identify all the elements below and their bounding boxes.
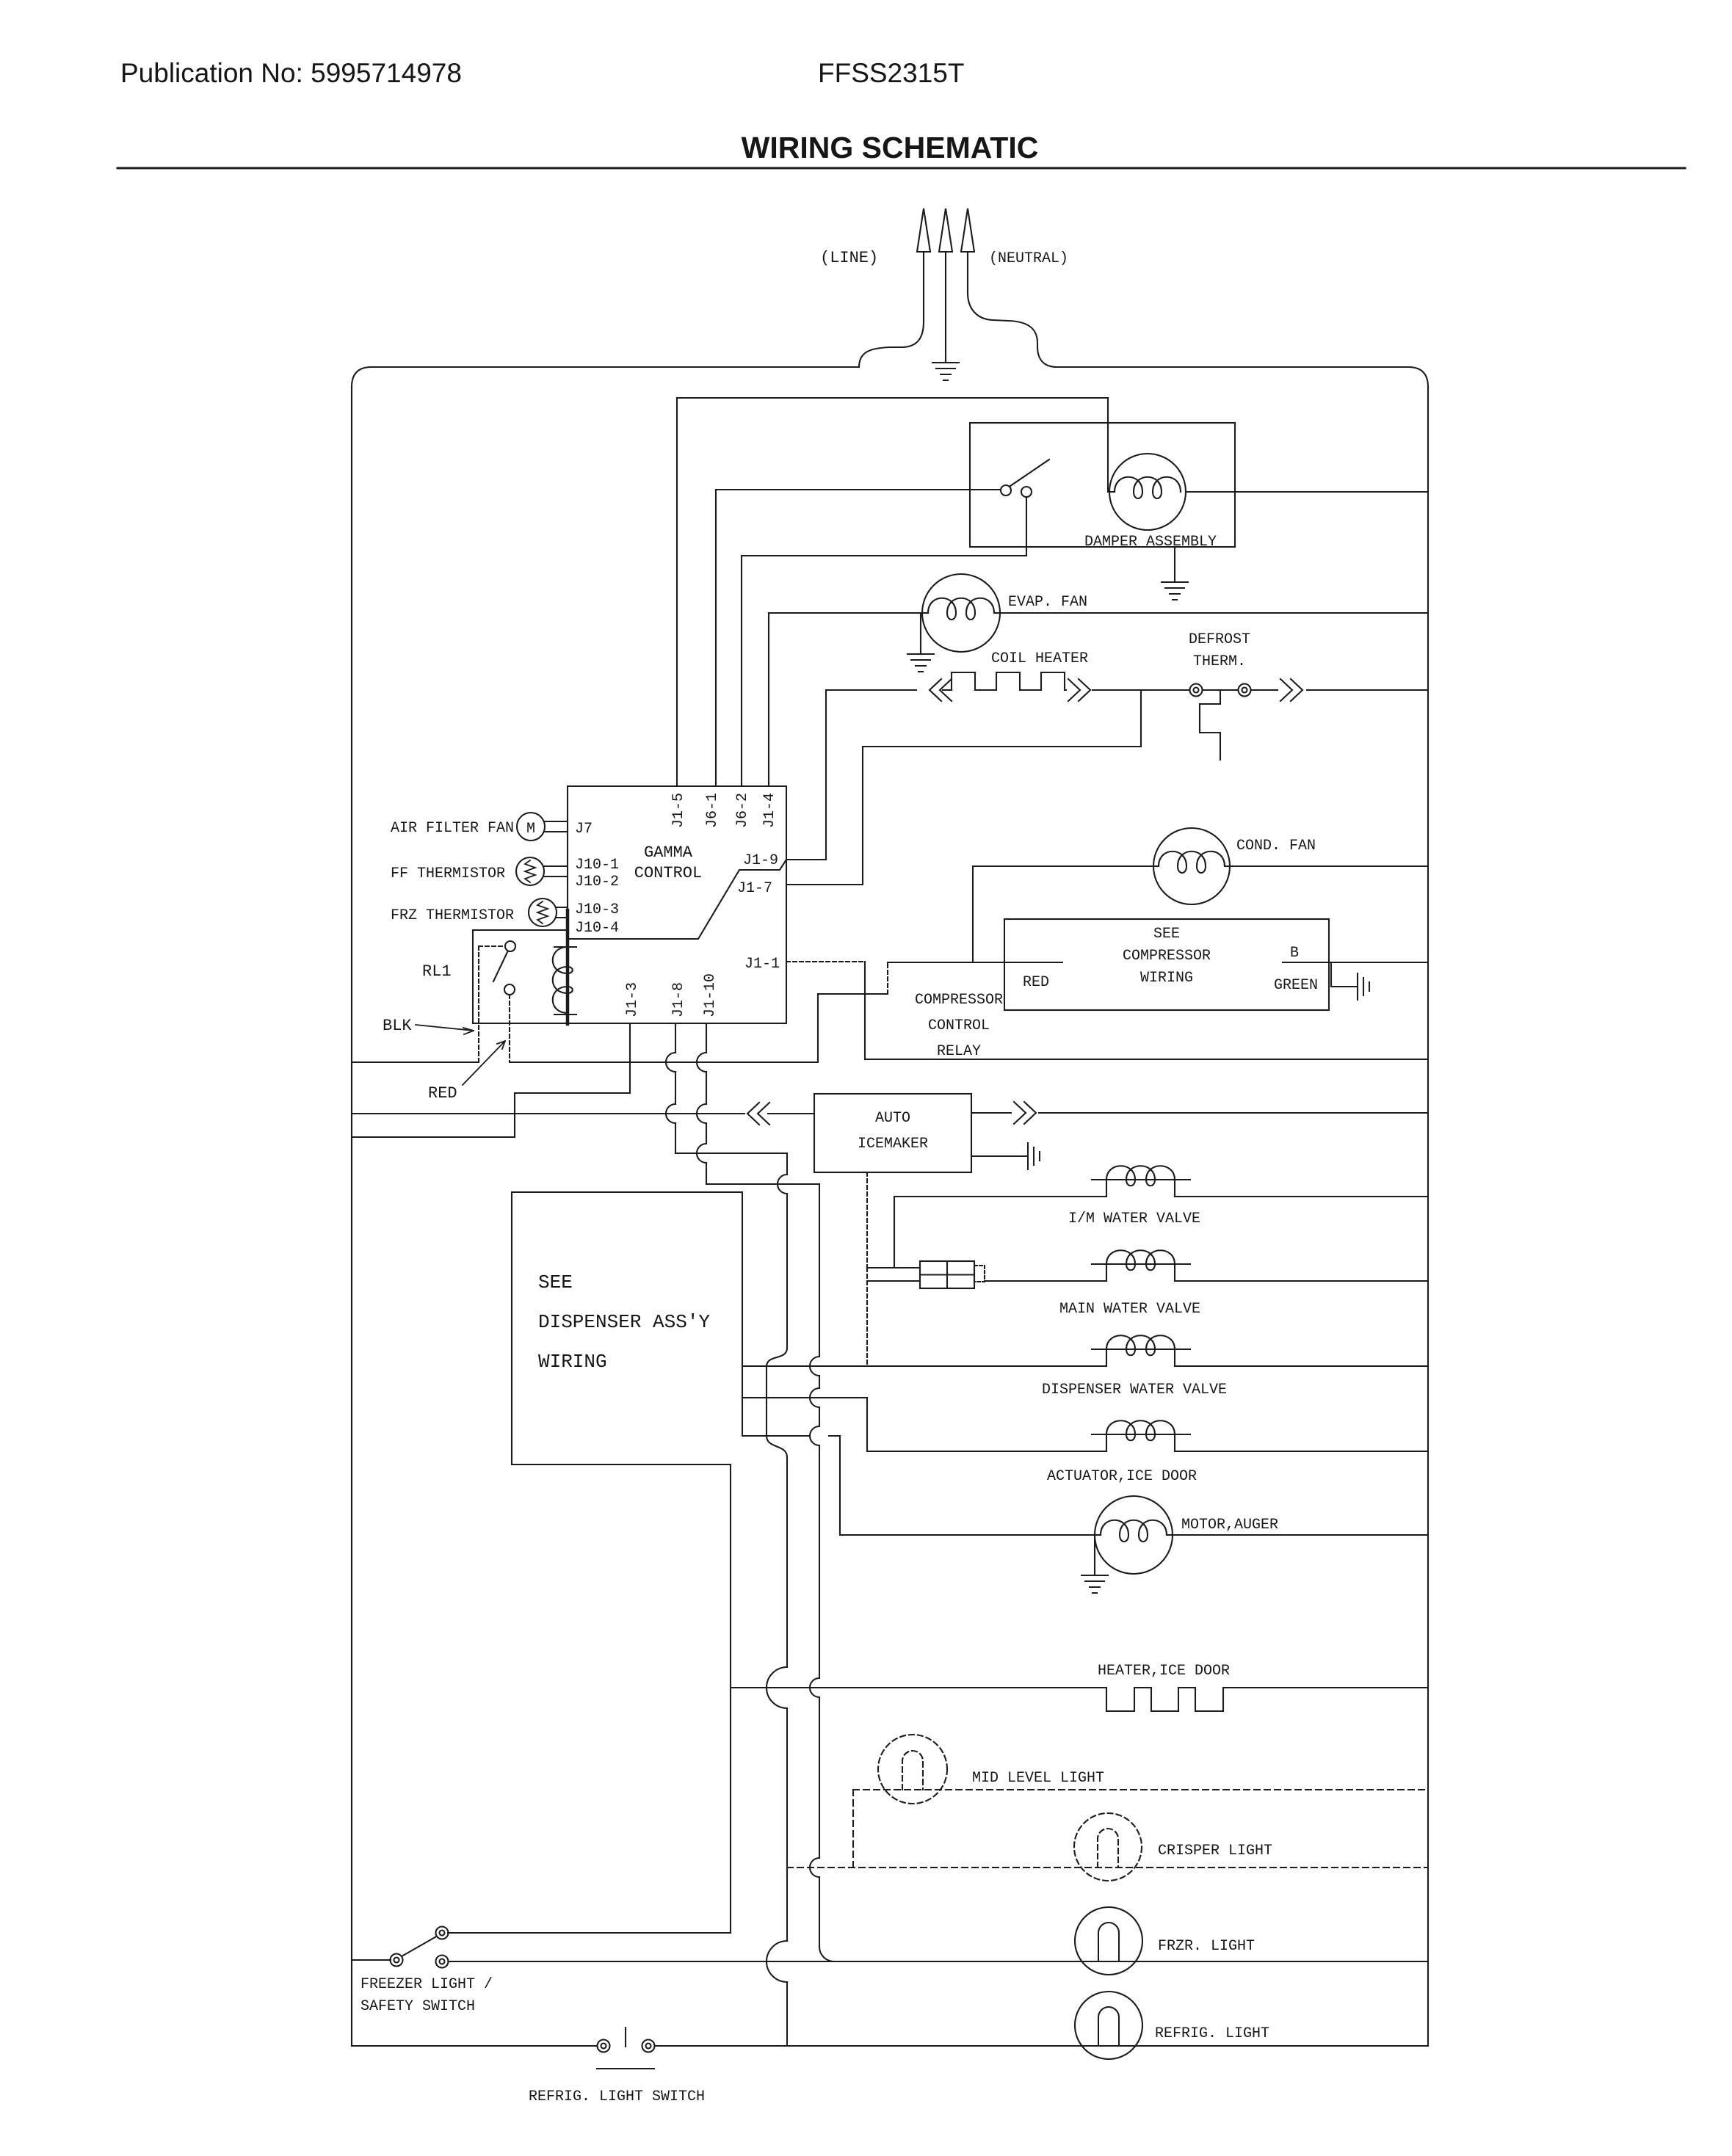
wire FF thermistor leads xyxy=(544,866,568,876)
svg-text:WIRING: WIRING xyxy=(1140,970,1193,987)
motor auger coil winding xyxy=(1101,1520,1167,1542)
wire J1-8 lane x=1044 xyxy=(766,1367,767,1436)
freezer light bulb DS3 xyxy=(1075,1907,1142,1975)
svg-text:B: B xyxy=(1290,945,1299,962)
wire J1-1 return to neutral rail xyxy=(865,962,1428,1059)
wire motor auger feed from dispenser box xyxy=(742,1436,1101,1535)
relay RL1 coil winding xyxy=(553,910,576,1024)
svg-text:COIL HEATER: COIL HEATER xyxy=(991,650,1088,667)
svg-text:J1-7: J1-7 xyxy=(737,880,772,897)
hop J1-10 over icemaker feed xyxy=(697,1104,706,1123)
wire icemaker ground lead xyxy=(971,1155,1026,1157)
svg-text:FRZR. LIGHT: FRZR. LIGHT xyxy=(1158,1938,1255,1955)
svg-text:DISPENSER WATER VALVE: DISPENSER WATER VALVE xyxy=(1042,1382,1227,1398)
svg-text:(NEUTRAL): (NEUTRAL) xyxy=(989,250,1068,267)
wire J1-4 to evap fan xyxy=(769,612,928,614)
earth ground for damper xyxy=(1162,582,1188,600)
svg-text:J1-8: J1-8 xyxy=(670,982,687,1017)
svg-text:REFRIG. LIGHT: REFRIG. LIGHT xyxy=(1155,2025,1269,2042)
svg-text:COMPRESSOR: COMPRESSOR xyxy=(915,992,1003,1009)
crisper light bulb DS2 xyxy=(1074,1813,1142,1881)
wire RED relay output drop xyxy=(509,995,510,1062)
svg-text:RED: RED xyxy=(1023,974,1049,991)
air filter fan motor B1 xyxy=(517,813,545,841)
main water valve solenoid L2 xyxy=(1092,1250,1190,1281)
hop J1-8 over icemaker feed xyxy=(666,1104,675,1123)
connector chevron on icemaker output xyxy=(1014,1102,1036,1124)
svg-text:J1-4: J1-4 xyxy=(761,793,778,828)
svg-text:BLK: BLK xyxy=(383,1017,412,1035)
svg-text:EVAP. FAN: EVAP. FAN xyxy=(1008,594,1087,611)
cond fan coil winding xyxy=(1159,852,1225,873)
wire J1-9 defrost heater feed xyxy=(786,690,916,860)
damper assembly box xyxy=(970,423,1235,547)
svg-text:WIRING SCHEMATIC: WIRING SCHEMATIC xyxy=(742,131,1039,164)
freezer safety switch wire from hot rail xyxy=(352,1959,391,1961)
svg-text:J1-9: J1-9 xyxy=(743,852,778,869)
wire J6-1 to damper switch xyxy=(716,489,1001,490)
water valve body block xyxy=(920,1261,974,1288)
wire icemaker output to neutral rail xyxy=(971,1112,1428,1114)
wire valve common drop xyxy=(866,1268,868,1366)
wire J1-10 run to the right xyxy=(706,1183,819,1185)
wire J1-5 vertical xyxy=(676,398,678,786)
svg-text:Publication No: 5995714978: Publication No: 5995714978 xyxy=(120,58,462,88)
wire bottom rail with refrig light xyxy=(352,2045,1428,2047)
wire J6-2 vertical xyxy=(741,556,742,786)
hop J1-10 over actuator feed wire xyxy=(810,1388,819,1407)
svg-text:RELAY: RELAY xyxy=(937,1043,981,1060)
connector chevron right on heater line xyxy=(1068,679,1090,701)
wire I/M valve riser xyxy=(894,1197,895,1268)
gamma control board outline U1 xyxy=(473,786,786,1023)
refrig light switch contact left xyxy=(598,2040,610,2052)
refrig light bulb DS4 xyxy=(1075,1992,1142,2059)
outer border top edge left segment (LINE rail) xyxy=(352,367,859,387)
FRZ thermistor RT2 xyxy=(529,899,557,926)
relay RL1 common contact xyxy=(505,941,515,951)
earth ground for motor auger xyxy=(1081,1575,1108,1593)
wire safety switch upper contact to dispenser drop xyxy=(448,1932,731,1934)
wire heater to neutral rail xyxy=(1223,1687,1428,1688)
wire J6-1 vertical xyxy=(715,490,717,786)
wire evap fan ground stem xyxy=(920,613,921,654)
hop J1-8 over J1-10 wire xyxy=(778,1175,787,1194)
damper motor circle xyxy=(1109,454,1186,530)
svg-text:DISPENSER ASS'Y: DISPENSER ASS'Y xyxy=(538,1311,710,1333)
svg-text:AUTO: AUTO xyxy=(875,1110,910,1127)
svg-text:FF THERMISTOR: FF THERMISTOR xyxy=(391,865,505,882)
actuator ice door solenoid L4 xyxy=(1092,1420,1190,1451)
svg-text:CONTROL: CONTROL xyxy=(928,1017,990,1034)
svg-text:J10-1: J10-1 xyxy=(575,857,619,874)
hop J1-10 over crisper light wire xyxy=(810,1858,819,1877)
svg-text:SEE: SEE xyxy=(538,1271,573,1293)
compressor wiring box xyxy=(1004,919,1329,1010)
dispenser water valve solenoid L3 xyxy=(1092,1335,1190,1366)
wire J1-4 vertical xyxy=(768,613,769,786)
heater ice door element R1 xyxy=(1106,1688,1223,1711)
wire J1-8 descent xyxy=(675,1023,676,1153)
wire defrost tap to J1-7 xyxy=(786,747,1141,885)
power plug prong (GROUND middle) xyxy=(939,208,952,362)
freezer safety switch arm xyxy=(402,1936,438,1956)
svg-text:MID LEVEL LIGHT: MID LEVEL LIGHT xyxy=(972,1770,1104,1787)
hop J1-10 over motor feed wire xyxy=(810,1426,819,1445)
power plug prong (NEUTRAL) xyxy=(961,208,1057,367)
connector chevron left on heater line xyxy=(930,679,952,701)
outer border top edge right segment (NEUTRAL rail) xyxy=(1057,367,1428,387)
wire heater ice door line xyxy=(731,1687,1106,1688)
wire evap fan to neutral rail xyxy=(994,612,1428,614)
relay RL1 lower contact xyxy=(504,984,515,995)
wire J1-10 drop x=1116 freezer light feed xyxy=(819,1184,820,1947)
svg-text:FFSS2315T: FFSS2315T xyxy=(818,58,964,88)
svg-text:J10-2: J10-2 xyxy=(575,874,619,890)
damper coil winding xyxy=(1115,477,1181,498)
svg-text:RED: RED xyxy=(428,1084,457,1103)
wire J1-10 descent xyxy=(706,1023,707,1184)
svg-text:MOTOR,AUGER: MOTOR,AUGER xyxy=(1181,1517,1278,1533)
svg-text:THERM.: THERM. xyxy=(1193,653,1246,670)
wire air filter fan leads to J7 xyxy=(545,821,568,832)
svg-text:HEATER,ICE DOOR: HEATER,ICE DOOR xyxy=(1098,1663,1230,1680)
svg-text:I/M WATER VALVE: I/M WATER VALVE xyxy=(1068,1211,1200,1227)
cond fan motor circle xyxy=(1153,828,1230,904)
freezer safety switch upper contact xyxy=(436,1927,449,1939)
damper switch contact left xyxy=(1001,485,1011,496)
wire dispenser water valve line xyxy=(742,1365,1428,1367)
svg-text:DEFROST: DEFROST xyxy=(1189,631,1250,648)
FF thermistor RT1 xyxy=(516,857,544,885)
svg-text:MAIN WATER VALVE: MAIN WATER VALVE xyxy=(1059,1301,1200,1318)
svg-text:GREEN: GREEN xyxy=(1274,977,1318,994)
wire damper switch return down xyxy=(1026,497,1027,556)
hop J1-10 over relay wire xyxy=(697,1053,706,1072)
damper switch arm xyxy=(1010,460,1049,486)
mid level light bulb DS1 xyxy=(878,1735,947,1804)
refrig light switch plunger xyxy=(597,2028,654,2069)
chassis ground for compressor xyxy=(1358,973,1369,1000)
svg-text:J1-1: J1-1 xyxy=(744,956,780,973)
svg-text:M: M xyxy=(526,821,535,838)
wire J1-3 RED route to hot rail xyxy=(352,1023,630,1137)
relay RL1 box xyxy=(473,930,568,1023)
hop J1-8 over freezer light wire xyxy=(767,1941,787,1982)
svg-text:J7: J7 xyxy=(575,821,593,838)
svg-text:J6-1: J6-1 xyxy=(704,793,721,828)
svg-text:ACTUATOR,ICE DOOR: ACTUATOR,ICE DOOR xyxy=(1047,1468,1197,1485)
svg-text:GAMMA: GAMMA xyxy=(644,843,693,862)
refrig light switch contact right xyxy=(642,2040,655,2052)
svg-text:FREEZER LIGHT /: FREEZER LIGHT / xyxy=(360,1976,493,1993)
wire actuator feed from dispenser box xyxy=(742,1398,1428,1451)
hop J1-8 over relay wire xyxy=(666,1053,675,1072)
wire motor auger ground stem xyxy=(1094,1535,1095,1575)
svg-text:SAFETY SWITCH: SAFETY SWITCH xyxy=(360,1998,475,2015)
svg-text:CRISPER LIGHT: CRISPER LIGHT xyxy=(1158,1843,1272,1859)
evap fan coil winding xyxy=(928,598,994,620)
hop J1-10 over heater wire xyxy=(810,1678,819,1697)
I/M water valve solenoid L1 xyxy=(1092,1166,1190,1197)
wire relay output to compressor relay zigzag xyxy=(510,994,888,1062)
defrost thermostat contact right xyxy=(1239,684,1251,697)
outer border right edge (neutral rail) xyxy=(1427,387,1429,2046)
wire J1-1 output xyxy=(786,961,865,962)
title underline rule xyxy=(117,167,1685,170)
svg-text:J6-2: J6-2 xyxy=(734,793,751,828)
wire J1-10 corner into freezer light wire xyxy=(819,1947,834,1961)
power plug prong (LINE) xyxy=(859,208,930,367)
svg-text:J10-4: J10-4 xyxy=(575,920,619,937)
wire crisper light line xyxy=(787,1867,1428,1868)
svg-text:(LINE): (LINE) xyxy=(820,249,878,267)
auto icemaker box xyxy=(814,1094,971,1172)
relay RL1 arm xyxy=(493,952,507,981)
wire valve bottom row feed xyxy=(867,1280,920,1282)
wire BLK feed to relay common xyxy=(352,1061,479,1063)
BLK leader arrow xyxy=(416,1025,474,1034)
wire damper coil to neutral rail xyxy=(1186,491,1428,493)
svg-text:WIRING: WIRING xyxy=(538,1351,607,1373)
wire J1-8 lane shift right xyxy=(767,1436,787,1457)
wire mid level light line xyxy=(853,1789,1428,1790)
chassis ground for icemaker xyxy=(1028,1143,1040,1169)
svg-text:J10-3: J10-3 xyxy=(575,901,619,918)
freezer safety switch common contact xyxy=(391,1954,403,1967)
wire valve top row feed xyxy=(867,1267,920,1268)
svg-text:DAMPER ASSEMBLY: DAMPER ASSEMBLY xyxy=(1084,534,1217,551)
water valve side port xyxy=(974,1266,985,1282)
defrost thermostat contact left xyxy=(1190,684,1203,697)
wire J1-8 lane shift left xyxy=(767,1348,787,1367)
defrost coil heater element xyxy=(943,672,1066,690)
wire main water valve line xyxy=(985,1280,1428,1282)
wire cond fan to neutral rail xyxy=(1225,865,1428,867)
freezer safety switch lower contact xyxy=(436,1956,449,1968)
hop J1-8 over heater wire xyxy=(767,1667,787,1708)
earth ground for evap fan xyxy=(907,654,934,672)
wire J1-8 run to the right xyxy=(675,1153,787,1154)
wire freezer light line xyxy=(447,1961,1428,1962)
wire GREEN ground stub xyxy=(1331,962,1356,987)
earth ground for plug xyxy=(932,363,959,380)
svg-text:FRZ THERMISTOR: FRZ THERMISTOR xyxy=(391,907,514,924)
damper switch contact right xyxy=(1021,487,1032,497)
svg-text:REFRIG. LIGHT SWITCH: REFRIG. LIGHT SWITCH xyxy=(529,2088,705,2105)
wire heater to defrost thermostat and neutral rail xyxy=(1093,689,1428,691)
svg-text:SEE: SEE xyxy=(1153,926,1180,943)
svg-text:COND. FAN: COND. FAN xyxy=(1236,838,1316,854)
evap fan motor circle xyxy=(922,574,1000,652)
svg-text:RL1: RL1 xyxy=(422,962,452,981)
defrost thermostat bimetal stub xyxy=(1200,690,1220,760)
svg-text:J1-3: J1-3 xyxy=(624,982,641,1017)
wire defrost line tap down xyxy=(1140,690,1142,747)
wire I/M water valve line xyxy=(894,1196,1428,1197)
wire icemaker to water valve drop xyxy=(866,1172,868,1268)
wire J1-8 drop x=1072 xyxy=(786,1153,788,1348)
RED leader arrow xyxy=(463,1041,505,1085)
hop J1-10 over dispenser valve wire xyxy=(810,1357,819,1376)
svg-text:ICEMAKER: ICEMAKER xyxy=(858,1136,928,1153)
svg-text:J1-10: J1-10 xyxy=(702,973,719,1017)
wire cond fan feed from RED line xyxy=(973,866,1159,962)
wire motor auger to neutral rail xyxy=(1167,1534,1428,1536)
connector chevron on icemaker feed xyxy=(747,1103,769,1125)
svg-text:CONTROL: CONTROL xyxy=(634,864,702,882)
wire J1-8 drop to lights xyxy=(786,1457,788,2046)
wire heater ice door drop from dispenser box xyxy=(730,1464,731,1933)
dispenser assembly box xyxy=(512,1192,742,1464)
svg-text:COMPRESSOR: COMPRESSOR xyxy=(1123,948,1211,965)
connector chevron after defrost thermostat xyxy=(1280,679,1302,701)
wire RED to compressor xyxy=(888,962,1062,963)
wire damper ground stem xyxy=(1174,547,1175,582)
outer border left edge (hot rail) xyxy=(351,387,352,2046)
wire damper feed drop into box xyxy=(1108,398,1115,492)
motor auger circle B2 xyxy=(1095,1496,1173,1574)
wire mid level light branch xyxy=(852,1790,854,1868)
wire J1-5 to damper: horizontal y=542 xyxy=(677,397,1108,399)
wire FRZ thermistor leads xyxy=(557,907,568,918)
svg-text:J1-5: J1-5 xyxy=(670,793,687,828)
wire GREEN to neutral rail xyxy=(1283,962,1428,963)
svg-text:AIR FILTER FAN: AIR FILTER FAN xyxy=(391,820,514,837)
wire icemaker feed from hot rail xyxy=(352,1113,814,1114)
wire damper switch return to J6-2 xyxy=(742,555,1026,556)
hop J1-10 over J1-8 wire xyxy=(697,1144,706,1163)
